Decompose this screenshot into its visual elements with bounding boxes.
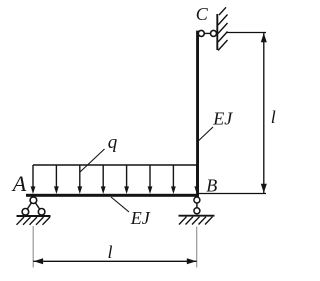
- svg-text:q: q: [108, 132, 118, 153]
- load arrow 6: [148, 165, 153, 194]
- support B upper circle: [194, 197, 200, 203]
- bottom dimension arrow right: [187, 258, 197, 264]
- support A hinge circle: [30, 197, 37, 204]
- support A right foot circle: [38, 209, 45, 216]
- load arrow 3: [77, 165, 82, 194]
- load arrow 1: [31, 165, 36, 194]
- load arrow 7: [171, 165, 176, 194]
- support C link line: [198, 32, 218, 34]
- svg-text:A: A: [11, 171, 27, 196]
- load arrow 5: [124, 165, 129, 194]
- bottom dimension line: [33, 260, 197, 262]
- support B link stem: [196, 203, 198, 208]
- column BC: [196, 31, 199, 197]
- distributed load top line: [33, 164, 198, 166]
- support A left leg: [27, 203, 32, 210]
- support A right leg: [35, 203, 40, 210]
- support C right hinge circle: [211, 30, 217, 36]
- svg-text:l: l: [107, 242, 112, 262]
- beam-level dimension line to right: [199, 193, 266, 195]
- support A ground line: [17, 215, 51, 217]
- svg-text:l: l: [271, 107, 276, 127]
- svg-text:C: C: [196, 4, 209, 24]
- load arrow 8: [194, 165, 199, 194]
- left extension line below A: [32, 226, 34, 268]
- load arrow 2: [54, 165, 59, 194]
- svg-text:EJ: EJ: [212, 108, 233, 128]
- bottom dimension arrow left: [34, 258, 44, 264]
- wall hatching at C: [218, 7, 228, 50]
- support B ground hatching: [179, 217, 213, 225]
- wall line at C: [216, 14, 218, 50]
- load arrow 4: [101, 165, 106, 194]
- svg-text:EJ: EJ: [130, 208, 151, 228]
- support B ground line: [179, 215, 215, 217]
- right dimension arrow up: [261, 33, 267, 42]
- q leader line: [80, 149, 105, 172]
- beam EJ leader: [111, 197, 129, 212]
- support B lower circle: [194, 208, 200, 214]
- support C left hinge circle: [198, 30, 204, 36]
- beam AB: [26, 194, 199, 197]
- right vertical dimension line: [263, 33, 265, 194]
- support A left foot circle: [22, 209, 29, 216]
- column EJ leader: [198, 127, 213, 141]
- top dimension line at C level: [227, 32, 266, 34]
- support A ground hatching: [17, 217, 51, 225]
- svg-text:B: B: [206, 175, 217, 195]
- right extension line below B: [196, 227, 198, 268]
- right dimension arrow down: [261, 184, 267, 193]
